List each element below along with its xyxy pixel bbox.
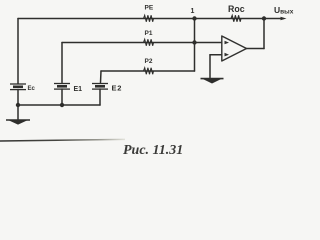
- battery E2: [92, 84, 108, 90]
- svg-text:P2: P2: [145, 58, 153, 65]
- wire feedback vertical: [263, 19, 265, 49]
- wire to op-amp ground: [209, 55, 211, 78]
- wire battery E2 lower lead: [99, 89, 101, 105]
- wire left input branch 1 vertical: [17, 19, 19, 84]
- op-amp inverting input mark: [225, 41, 230, 44]
- junction dot bottom bus left: [16, 103, 20, 107]
- svg-text:Uвых: Uвых: [274, 5, 294, 16]
- wire bottom common bus: [18, 104, 100, 106]
- page rule line: [0, 139, 125, 141]
- svg-text:PE: PE: [145, 5, 154, 12]
- junction dot bottom bus middle: [60, 103, 64, 107]
- svg-text:Е1: Е1: [74, 86, 83, 93]
- wire to left ground: [17, 105, 19, 119]
- ground (left, battery return): [6, 120, 30, 125]
- wire op-amp output: [247, 48, 265, 50]
- svg-text:Рис. 11.31: Рис. 11.31: [123, 143, 183, 158]
- svg-text:Roc: Roc: [228, 4, 245, 14]
- resistor P1: [144, 39, 154, 45]
- wire top bus (summing node to output): [18, 18, 283, 20]
- svg-text:Е2: Е2: [112, 84, 123, 93]
- wire left input branch 2 vertical: [61, 43, 63, 83]
- resistor PE: [144, 15, 154, 21]
- op-amp non-inverting input mark: [225, 53, 230, 57]
- wire row3 (P2 line): [101, 70, 195, 72]
- output terminal arrow Uout: [281, 17, 287, 20]
- wire non-inverting input stub: [210, 54, 222, 56]
- battery E1: [54, 84, 70, 90]
- op-amp U1: [222, 36, 247, 61]
- resistor Roc (feedback): [231, 15, 241, 21]
- svg-text:P1: P1: [145, 30, 153, 37]
- ground (op-amp reference): [201, 79, 224, 84]
- resistor P2: [144, 68, 154, 74]
- battery Ec: [10, 84, 26, 90]
- svg-text:Ес: Ес: [28, 86, 36, 92]
- node 1 junction dot: [192, 16, 196, 20]
- junction dot row2/bus: [192, 40, 196, 44]
- wire battery E_c lower lead: [17, 90, 19, 106]
- junction dot output/feedback: [262, 16, 266, 20]
- wire row2 (P1 line to inverting input): [62, 42, 222, 44]
- wire battery E1 lower lead: [61, 89, 63, 105]
- wire summing bus vertical (node 1): [194, 19, 196, 72]
- wire left input branch 3 vertical: [100, 71, 103, 83]
- svg-text:1: 1: [191, 8, 195, 15]
